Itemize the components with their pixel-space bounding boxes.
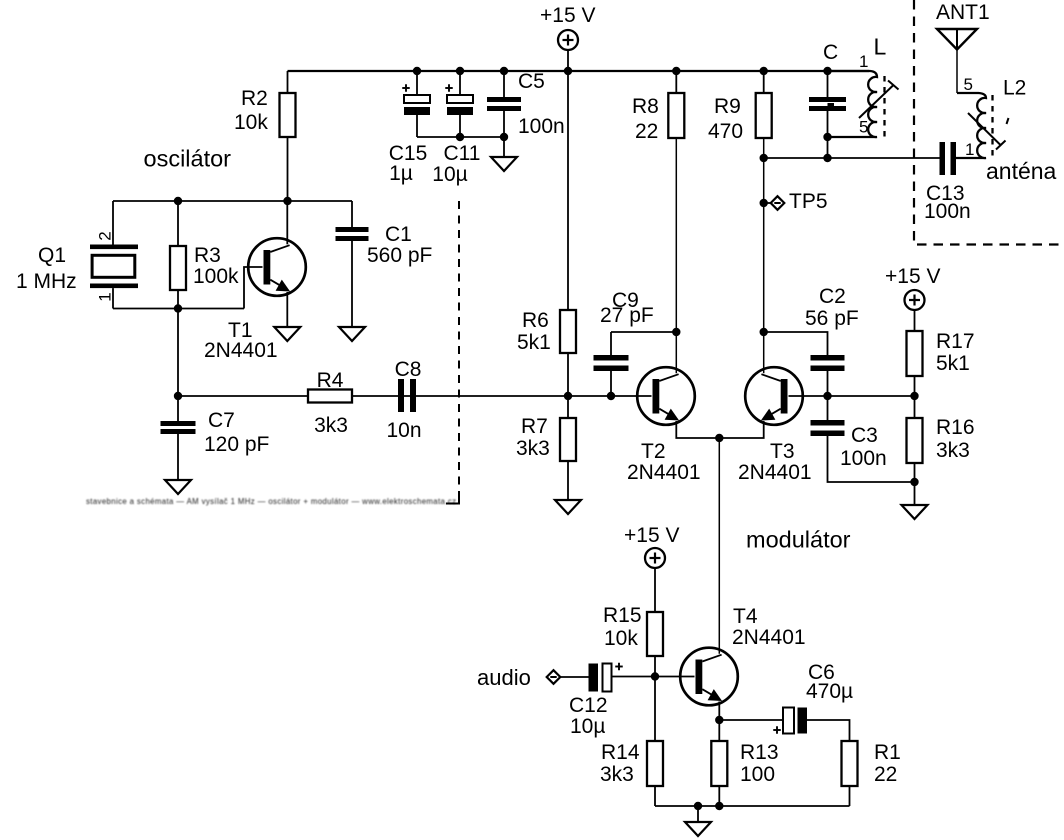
svg-text:27 pF: 27 pF: [600, 304, 654, 327]
svg-text:T3: T3: [770, 440, 795, 463]
wire R9 to T3 collector: [763, 138, 765, 373]
svg-text:T2: T2: [641, 440, 666, 463]
node T4 base junction: [651, 672, 659, 680]
node rail junction at R9: [760, 67, 768, 75]
label modulator: [746, 527, 851, 553]
resistor R2: [234, 71, 296, 201]
node rail junction at C11: [456, 67, 464, 75]
resistor R4: [308, 369, 352, 437]
node R3 bottom: [174, 304, 182, 312]
svg-text:audio: audio: [477, 665, 531, 690]
power +15V symbol right: [885, 265, 940, 331]
node C2/collector junction: [760, 328, 768, 336]
svg-text:R14: R14: [601, 741, 640, 764]
svg-text:R4: R4: [317, 369, 344, 392]
test point TP5: [764, 190, 828, 213]
antenna ANT1: [936, 1, 990, 93]
node common emitter junction: [715, 434, 723, 442]
wire emitter to C6: [719, 719, 783, 721]
node C5 bottom: [500, 133, 508, 141]
svg-text:10µ: 10µ: [570, 715, 605, 738]
transistor T4: [680, 605, 805, 705]
svg-text:470: 470: [708, 120, 743, 143]
svg-text:+15 V: +15 V: [540, 4, 595, 27]
label audio: [477, 665, 531, 690]
wire T3 base: [789, 395, 828, 397]
svg-text:1 MHz: 1 MHz: [16, 270, 77, 293]
svg-text:C11: C11: [444, 142, 481, 165]
svg-text:+15 V: +15 V: [624, 524, 679, 547]
transistor T1: [204, 238, 306, 362]
inductor L2 adjust arrow: [968, 113, 1006, 150]
wire modulator ground rail: [655, 805, 850, 807]
svg-text:2N4401: 2N4401: [738, 461, 812, 484]
svg-text:R9: R9: [714, 95, 741, 118]
node divider junction: [910, 392, 918, 400]
node T3 base junction: [823, 392, 831, 400]
node C9 base junction: [607, 392, 615, 400]
svg-text:T4: T4: [733, 605, 758, 628]
resistor R3: [170, 201, 239, 309]
wire T1 base: [244, 267, 263, 309]
inductor L: [828, 52, 878, 137]
node R6/R7 base junction: [564, 392, 572, 400]
svg-text:22: 22: [874, 763, 897, 786]
svg-text:L2: L2: [1003, 77, 1026, 100]
capacitor C15 electrolytic: [389, 71, 430, 185]
wire audio to C12: [561, 676, 589, 678]
svg-text:R6: R6: [522, 309, 549, 332]
svg-text:R7: R7: [521, 415, 548, 438]
svg-text:C3: C3: [851, 424, 878, 447]
ground under R7: [555, 500, 581, 514]
svg-text:1: 1: [859, 52, 868, 71]
capacitor C6 electrolytic: [773, 661, 853, 734]
connector audio diamond: [547, 670, 561, 684]
wire tank output to C13: [764, 157, 940, 159]
label oscilator: [144, 146, 232, 172]
svg-text:1: 1: [965, 140, 974, 159]
wire T1 emitter: [286, 295, 288, 327]
resistor R14: [600, 677, 663, 807]
transistor T3: [738, 367, 812, 484]
wire common emitter down to T4 collector: [718, 438, 720, 654]
resistor R16: [907, 396, 975, 482]
wire T2 emitter: [676, 424, 719, 438]
node rail junction at C: [823, 67, 831, 75]
svg-text:22: 22: [635, 120, 658, 143]
svg-text:TP5: TP5: [789, 190, 828, 213]
node T4 emitter junction: [715, 716, 723, 724]
svg-text:56 pF: 56 pF: [805, 307, 859, 330]
svg-text:2N4401: 2N4401: [627, 461, 701, 484]
svg-text:+15 V: +15 V: [885, 265, 940, 288]
node R3 top: [174, 197, 182, 205]
node T1 collector junction: [283, 197, 291, 205]
wire C12 to T4 base: [612, 676, 695, 678]
svg-text:C8: C8: [395, 358, 422, 381]
node TP5 junction: [760, 199, 768, 207]
svg-text:anténa: anténa: [986, 158, 1057, 184]
ground under C5: [491, 137, 517, 171]
watermark: [86, 497, 456, 506]
svg-text:oscilátor: oscilátor: [144, 146, 232, 172]
node R13 bottom junction: [715, 802, 723, 810]
resistor R8: [632, 71, 684, 143]
wire oscillator bottom node: [113, 308, 244, 310]
wire base line: [178, 395, 652, 397]
ground under C7: [165, 480, 191, 494]
svg-text:5k1: 5k1: [517, 331, 551, 354]
resistor R1: [842, 741, 901, 806]
svg-text:R17: R17: [936, 330, 975, 353]
svg-text:2N4401: 2N4401: [732, 626, 806, 649]
svg-text:C7: C7: [208, 409, 235, 432]
wire R8 to T2 collector: [675, 138, 677, 373]
svg-text:C5: C5: [518, 70, 545, 93]
label antena: [986, 158, 1057, 184]
svg-text:100n: 100n: [924, 200, 971, 223]
svg-text:3k3: 3k3: [314, 414, 348, 437]
svg-text:10k: 10k: [604, 627, 638, 650]
capacitor C2: [764, 285, 859, 396]
wire +15V feed down to R6: [567, 71, 569, 310]
capacitor C5: [487, 70, 565, 138]
svg-text:5: 5: [964, 75, 973, 94]
resistor R15: [603, 604, 663, 677]
power +15V symbol top-center: [540, 4, 595, 71]
inductor L2 core dashed: [991, 95, 993, 158]
svg-text:2N4401: 2N4401: [204, 339, 278, 362]
svg-text:560 pF: 560 pF: [367, 244, 432, 267]
wire C6 to R1: [807, 720, 850, 741]
svg-text:100n: 100n: [840, 447, 887, 470]
wire T3 emitter: [719, 424, 763, 438]
node ground rail junction: [694, 802, 702, 810]
svg-text:100: 100: [740, 763, 775, 786]
node R16 bottom junction: [910, 478, 918, 486]
ground modulator: [685, 806, 711, 836]
svg-text:470µ: 470µ: [806, 680, 853, 703]
node L/C bottom junction: [823, 133, 831, 141]
svg-text:R2: R2: [241, 87, 268, 110]
svg-text:100n: 100n: [518, 115, 565, 138]
node C7/R4 junction: [174, 392, 182, 400]
dashed antenna box: [914, 0, 1063, 245]
label L: [874, 34, 887, 60]
wire C9 to T2 collector: [611, 331, 676, 333]
svg-text:ANT1: ANT1: [936, 1, 990, 24]
resistor R17: [907, 330, 975, 396]
svg-text:R16: R16: [936, 416, 975, 439]
resistor R7: [516, 396, 576, 500]
svg-text:2: 2: [96, 231, 115, 240]
dashed oscillator divider: [446, 201, 459, 504]
svg-text:C12: C12: [569, 694, 608, 717]
node tank output junction: [823, 154, 831, 162]
svg-text:120 pF: 120 pF: [204, 433, 269, 456]
wire T4 emitter: [718, 704, 720, 720]
svg-text:100k: 100k: [193, 265, 239, 288]
svg-text:10µ: 10µ: [432, 163, 467, 186]
svg-text:C2: C2: [819, 285, 846, 308]
power +15V symbol modulator: [624, 524, 679, 612]
svg-text:1: 1: [96, 292, 115, 301]
transistor T2: [627, 367, 701, 484]
svg-text:Q1: Q1: [38, 244, 66, 267]
capacitor C9: [594, 289, 654, 396]
capacitor C8: [386, 358, 421, 442]
svg-text:L: L: [874, 34, 887, 60]
ground under T1: [274, 327, 300, 341]
resistor R13: [711, 720, 778, 806]
svg-text:R8: R8: [632, 95, 659, 118]
capacitor C11 electrolytic: [432, 71, 480, 186]
crystal Q1: [16, 201, 138, 309]
inductor L core dashed: [883, 76, 885, 139]
wire decoupling bottom: [417, 136, 504, 138]
svg-text:R1: R1: [874, 741, 901, 764]
stray tick near L2: [1007, 118, 1009, 124]
node rail junction at +15V stem: [564, 67, 572, 75]
node rail junction at C5: [500, 67, 508, 75]
wire T1 collector: [286, 201, 288, 244]
node C9/collector junction: [672, 328, 680, 336]
ground under R16: [902, 482, 928, 519]
node rail junction at R8: [672, 67, 680, 75]
svg-text:C: C: [823, 41, 838, 64]
capacitor C1: [336, 201, 433, 327]
capacitor C3: [811, 396, 915, 482]
svg-text:modulátor: modulátor: [746, 527, 851, 553]
svg-text:10n: 10n: [386, 419, 421, 442]
svg-text:R3: R3: [194, 244, 221, 267]
svg-text:3k3: 3k3: [516, 437, 550, 460]
capacitor C12 electrolytic: [569, 663, 623, 738]
svg-text:R15: R15: [603, 604, 642, 627]
node C11 bottom: [456, 133, 464, 141]
svg-text:5k1: 5k1: [936, 352, 970, 375]
svg-text:3k3: 3k3: [600, 763, 634, 786]
node rail junction at C15: [413, 67, 421, 75]
node tank feed junction: [760, 154, 768, 162]
capacitor C variable: [809, 41, 846, 158]
wire base to divider: [828, 395, 915, 397]
inductor L2: [956, 75, 1026, 159]
resistor R6: [517, 309, 576, 396]
wire R3 node down to C7 node: [177, 309, 179, 397]
wire oscillator top node: [113, 200, 352, 202]
svg-text:stavebnice a schémata — AM vys: stavebnice a schémata — AM vysílač 1 MHz…: [86, 497, 456, 506]
resistor R9: [708, 71, 772, 143]
svg-text:10k: 10k: [234, 111, 268, 134]
svg-text:3k3: 3k3: [936, 439, 970, 462]
svg-text:5: 5: [859, 118, 868, 137]
svg-text:C1: C1: [385, 223, 412, 246]
capacitor C7: [161, 396, 270, 480]
svg-text:R13: R13: [740, 741, 779, 764]
svg-text:1µ: 1µ: [389, 162, 413, 185]
capacitor C13: [924, 142, 971, 223]
ground under C1: [339, 327, 365, 341]
wire +15V rail: [288, 70, 870, 72]
inductor L adjust arrow: [859, 81, 899, 119]
